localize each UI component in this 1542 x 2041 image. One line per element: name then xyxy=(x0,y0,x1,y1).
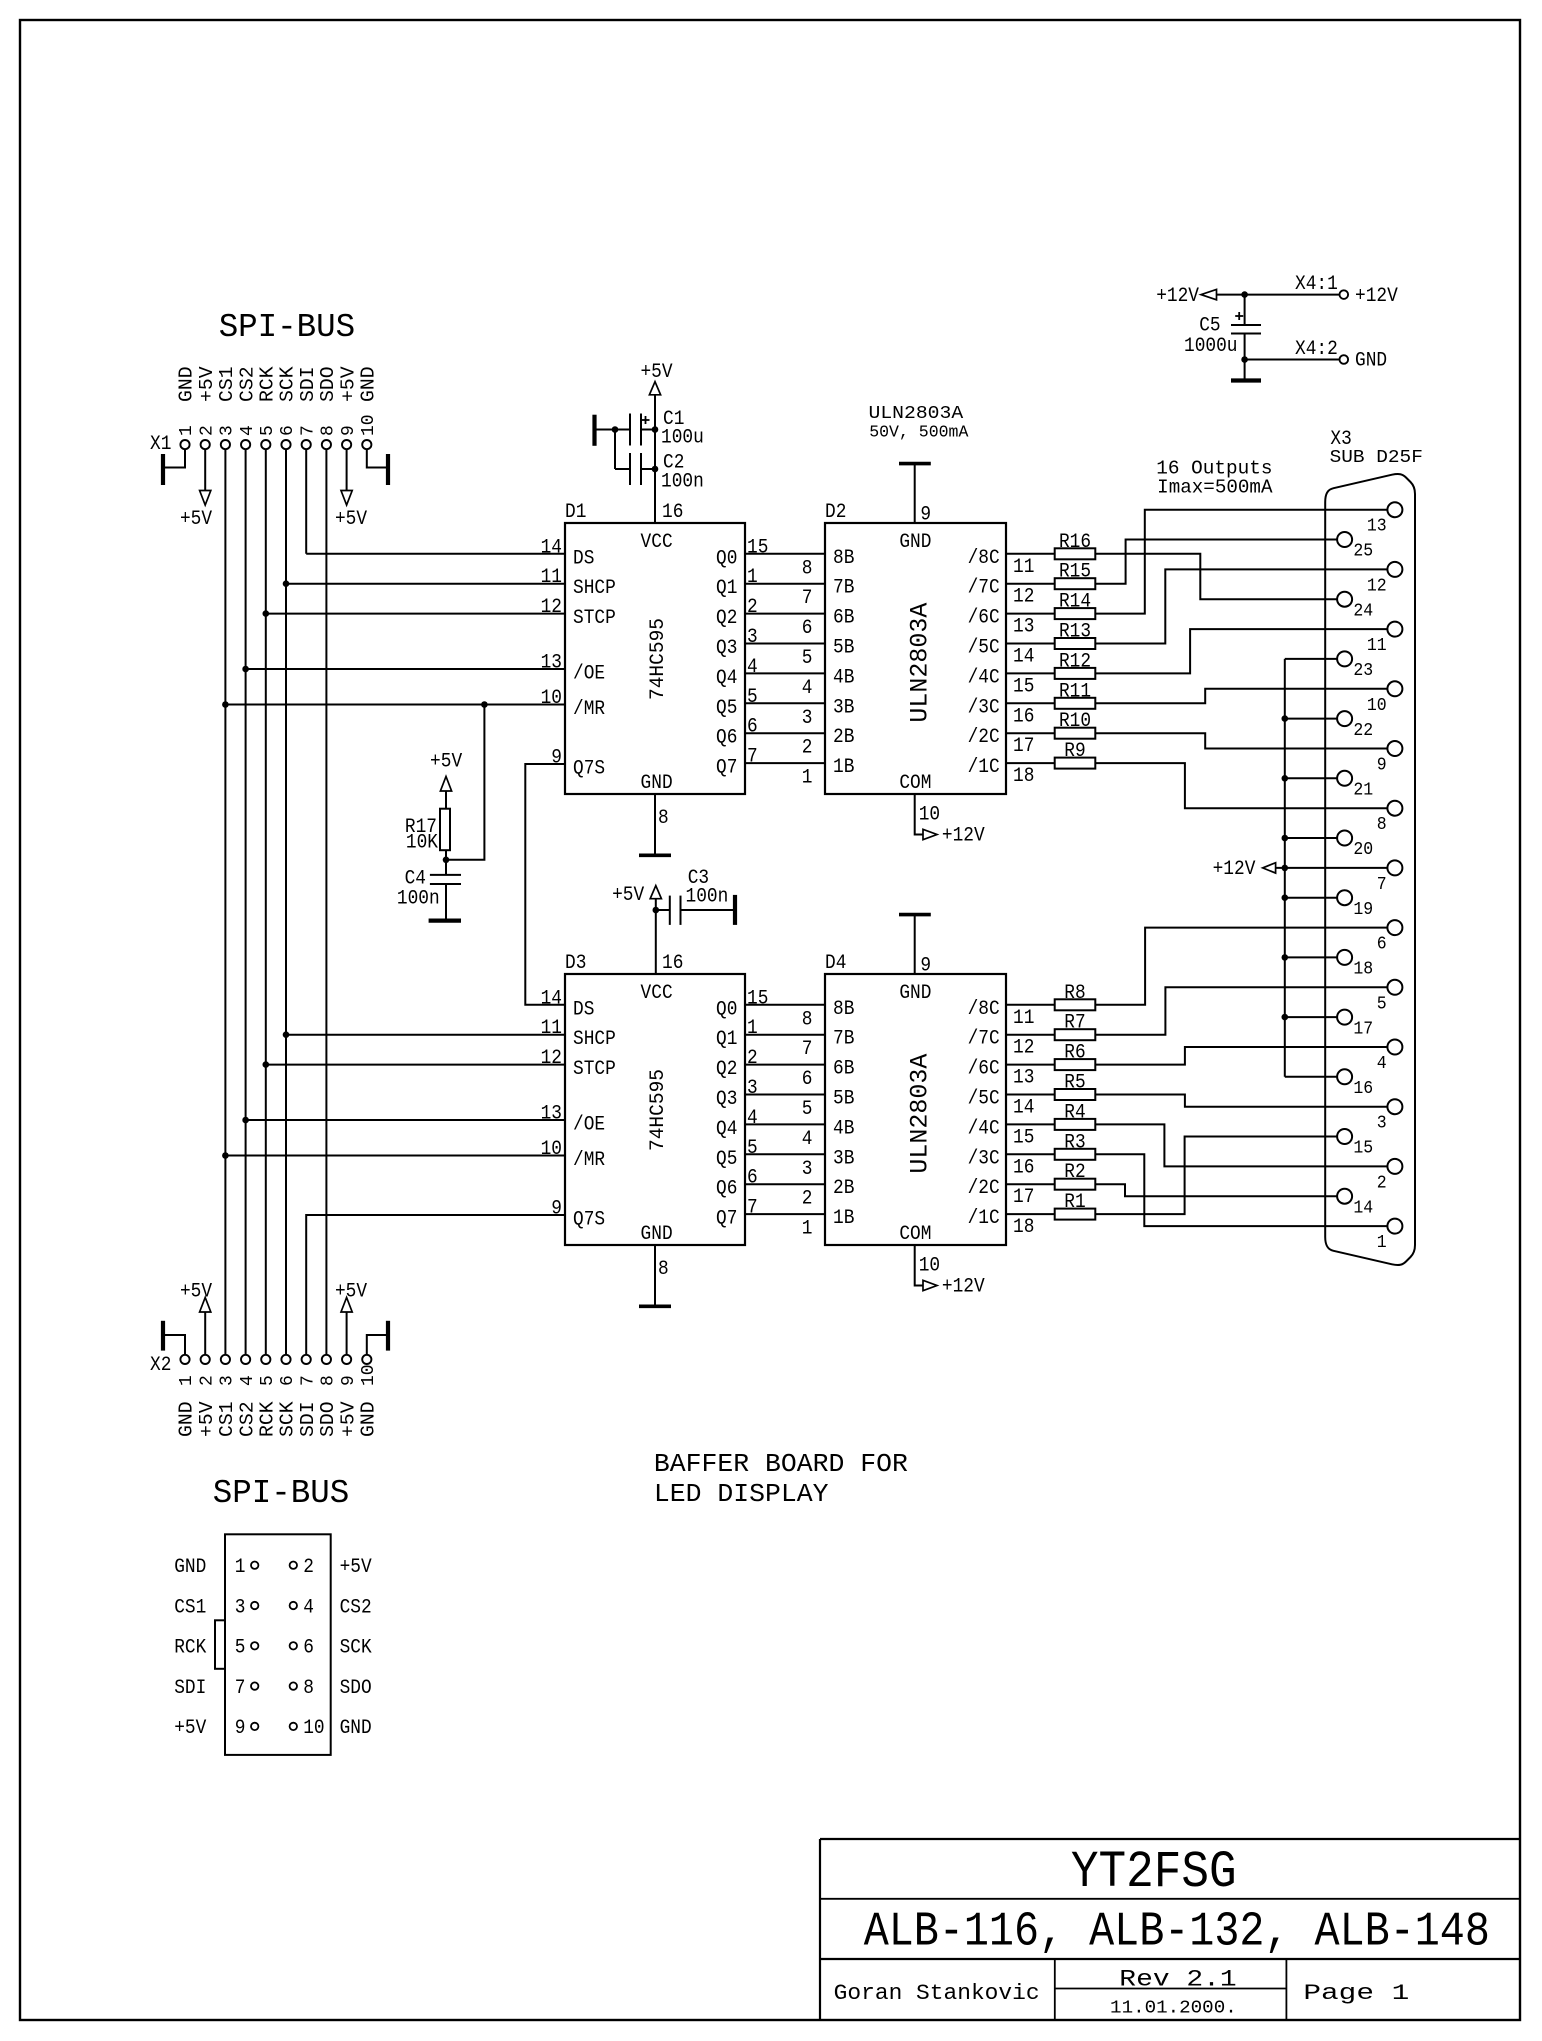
svg-text:VCC: VCC xyxy=(641,531,673,554)
svg-text:+12V: +12V xyxy=(942,1276,985,1299)
svg-text:GND: GND xyxy=(899,982,931,1005)
svg-text:13: 13 xyxy=(1013,616,1034,639)
svg-text:1: 1 xyxy=(177,1375,197,1386)
svg-text:2: 2 xyxy=(197,1375,217,1386)
svg-text:+5V: +5V xyxy=(430,751,462,774)
svg-text:11: 11 xyxy=(1013,556,1034,579)
svg-text:YT2FSG: YT2FSG xyxy=(1071,1843,1237,1902)
svg-text:Q2: Q2 xyxy=(716,1058,737,1081)
svg-text:CS2: CS2 xyxy=(236,1401,258,1437)
svg-text:8B: 8B xyxy=(833,547,854,570)
svg-text:6: 6 xyxy=(278,425,298,436)
svg-text:100n: 100n xyxy=(686,885,729,908)
svg-text:13: 13 xyxy=(1013,1067,1034,1090)
svg-text:14: 14 xyxy=(541,987,562,1010)
svg-text:17: 17 xyxy=(1013,1186,1034,1209)
svg-text:+12V: +12V xyxy=(1213,858,1256,881)
svg-text:6: 6 xyxy=(802,1068,813,1091)
svg-text:13: 13 xyxy=(1367,516,1387,537)
svg-text:8: 8 xyxy=(802,557,813,580)
svg-text:SDO: SDO xyxy=(317,366,339,402)
svg-text:17: 17 xyxy=(1013,735,1034,758)
svg-text:100n: 100n xyxy=(661,470,704,493)
svg-text:R1: R1 xyxy=(1064,1191,1085,1214)
svg-text:COM: COM xyxy=(899,772,931,795)
svg-text:Rev 2.1: Rev 2.1 xyxy=(1119,1967,1236,1993)
svg-text:+5V: +5V xyxy=(180,508,212,531)
svg-text:+5V: +5V xyxy=(340,1556,372,1579)
svg-text:R8: R8 xyxy=(1064,982,1085,1005)
svg-text:D1: D1 xyxy=(565,501,586,524)
svg-text:Imax=500mA: Imax=500mA xyxy=(1157,477,1273,499)
svg-text:18: 18 xyxy=(1013,1216,1034,1239)
svg-text:SDI: SDI xyxy=(297,1401,319,1437)
svg-text:5: 5 xyxy=(235,1637,246,1660)
svg-text:/8C: /8C xyxy=(968,547,1000,570)
svg-text:5: 5 xyxy=(258,425,278,436)
svg-text:R15: R15 xyxy=(1059,561,1091,584)
svg-text:8: 8 xyxy=(319,1375,339,1386)
svg-text:5B: 5B xyxy=(833,637,854,660)
svg-text:Q3: Q3 xyxy=(716,1088,737,1111)
svg-text:10: 10 xyxy=(919,803,940,826)
svg-text:2: 2 xyxy=(197,425,217,436)
svg-text:COM: COM xyxy=(899,1223,931,1246)
svg-text:+5V: +5V xyxy=(180,1281,212,1304)
svg-text:9: 9 xyxy=(551,747,562,770)
svg-text:1: 1 xyxy=(1377,1232,1387,1253)
svg-text:5: 5 xyxy=(802,647,813,670)
svg-text:7: 7 xyxy=(802,587,813,610)
svg-text:5: 5 xyxy=(258,1375,278,1386)
svg-text:/MR: /MR xyxy=(573,1149,605,1172)
svg-text:3: 3 xyxy=(1377,1113,1387,1134)
svg-text:9: 9 xyxy=(1377,755,1387,776)
svg-text:15: 15 xyxy=(747,987,768,1010)
svg-text:7: 7 xyxy=(747,1197,758,1220)
svg-text:+12V: +12V xyxy=(942,825,985,848)
svg-text:SUB D25F: SUB D25F xyxy=(1330,447,1423,468)
svg-text:12: 12 xyxy=(1013,1037,1034,1060)
svg-text:2: 2 xyxy=(802,1188,813,1211)
svg-text:+5V: +5V xyxy=(337,1401,359,1437)
svg-text:/2C: /2C xyxy=(968,1177,1000,1200)
svg-text:+12V: +12V xyxy=(1156,285,1199,308)
svg-text:1: 1 xyxy=(747,1017,758,1040)
svg-text:16: 16 xyxy=(1013,1156,1034,1179)
svg-text:2: 2 xyxy=(802,737,813,760)
svg-text:10: 10 xyxy=(359,414,379,436)
svg-text:R6: R6 xyxy=(1064,1042,1085,1065)
svg-text:7: 7 xyxy=(298,425,318,436)
svg-text:6B: 6B xyxy=(833,607,854,630)
svg-text:DS: DS xyxy=(573,547,594,570)
svg-text:16: 16 xyxy=(662,952,683,975)
svg-text:R5: R5 xyxy=(1064,1072,1085,1095)
svg-text:/6C: /6C xyxy=(968,607,1000,630)
svg-text:3: 3 xyxy=(802,707,813,730)
svg-text:16: 16 xyxy=(1353,1078,1373,1099)
svg-text:11: 11 xyxy=(541,566,562,589)
svg-text:11: 11 xyxy=(1367,635,1387,656)
svg-text:7: 7 xyxy=(235,1677,246,1700)
svg-text:18: 18 xyxy=(1013,765,1034,788)
svg-text:GND: GND xyxy=(641,1223,673,1246)
svg-text:8: 8 xyxy=(1377,814,1387,835)
svg-text:1: 1 xyxy=(235,1556,246,1579)
svg-text:SDI: SDI xyxy=(297,366,319,402)
svg-text:8: 8 xyxy=(802,1008,813,1031)
svg-text:100n: 100n xyxy=(397,887,440,910)
svg-text:11.01.2000.: 11.01.2000. xyxy=(1110,1999,1237,2019)
svg-text:15: 15 xyxy=(1353,1138,1373,1159)
svg-text:/5C: /5C xyxy=(968,1088,1000,1111)
svg-text:4: 4 xyxy=(238,425,258,436)
svg-text:25: 25 xyxy=(1353,541,1373,562)
svg-text:10: 10 xyxy=(919,1254,940,1277)
svg-text:4B: 4B xyxy=(833,666,854,689)
svg-text:Q7S: Q7S xyxy=(573,758,605,781)
svg-text:50V, 500mA: 50V, 500mA xyxy=(869,424,969,443)
svg-text:X1: X1 xyxy=(150,433,171,456)
svg-text:Q4: Q4 xyxy=(716,1118,737,1141)
svg-text:74HC595: 74HC595 xyxy=(647,618,670,700)
svg-text:8: 8 xyxy=(303,1677,314,1700)
svg-text:6B: 6B xyxy=(833,1058,854,1081)
svg-text:+12V: +12V xyxy=(1355,285,1398,308)
svg-text:6: 6 xyxy=(802,617,813,640)
svg-text:19: 19 xyxy=(1353,899,1373,920)
svg-text:5B: 5B xyxy=(833,1088,854,1111)
svg-text:12: 12 xyxy=(1013,586,1034,609)
svg-text:+5V: +5V xyxy=(337,366,359,402)
svg-text:12: 12 xyxy=(541,1047,562,1070)
svg-text:RCK: RCK xyxy=(174,1637,206,1660)
svg-text:8: 8 xyxy=(319,425,339,436)
svg-text:GND: GND xyxy=(340,1717,372,1740)
svg-text:X4:1: X4:1 xyxy=(1295,273,1338,296)
svg-text:6: 6 xyxy=(747,1167,758,1190)
svg-text:1: 1 xyxy=(802,767,813,790)
svg-text:Q5: Q5 xyxy=(716,1148,737,1171)
svg-text:R7: R7 xyxy=(1064,1012,1085,1035)
svg-text:6: 6 xyxy=(278,1375,298,1386)
svg-text:3: 3 xyxy=(218,425,238,436)
svg-text:21: 21 xyxy=(1353,780,1373,801)
svg-text:/OE: /OE xyxy=(573,1114,605,1137)
svg-text:9: 9 xyxy=(920,504,931,527)
svg-text:7: 7 xyxy=(802,1038,813,1061)
svg-text:GND: GND xyxy=(641,772,673,795)
svg-text:R3: R3 xyxy=(1064,1131,1085,1154)
svg-text:/2C: /2C xyxy=(968,726,1000,749)
svg-text:VCC: VCC xyxy=(641,982,673,1005)
svg-text:3: 3 xyxy=(747,626,758,649)
svg-text:SHCP: SHCP xyxy=(573,1028,616,1051)
svg-text:Q4: Q4 xyxy=(716,667,737,690)
svg-text:16: 16 xyxy=(662,501,683,524)
svg-text:D4: D4 xyxy=(825,952,846,975)
svg-text:20: 20 xyxy=(1353,839,1373,860)
svg-text:/4C: /4C xyxy=(968,1117,1000,1140)
svg-text:8: 8 xyxy=(658,807,669,830)
svg-text:9: 9 xyxy=(235,1717,246,1740)
svg-text:R14: R14 xyxy=(1059,591,1091,614)
svg-text:2B: 2B xyxy=(833,726,854,749)
svg-text:SCK: SCK xyxy=(277,1401,299,1437)
svg-text:24: 24 xyxy=(1353,600,1373,621)
svg-text:R9: R9 xyxy=(1064,740,1085,763)
svg-text:Q7: Q7 xyxy=(716,1208,737,1231)
svg-text:/7C: /7C xyxy=(968,577,1000,600)
svg-text:18: 18 xyxy=(1353,959,1373,980)
svg-text:+5V: +5V xyxy=(335,1281,367,1304)
svg-text:ULN2803A: ULN2803A xyxy=(906,1054,935,1174)
svg-text:Page 1: Page 1 xyxy=(1303,1981,1409,2006)
svg-text:2: 2 xyxy=(1377,1172,1387,1193)
svg-text:GND: GND xyxy=(176,366,198,402)
svg-text:4: 4 xyxy=(747,1107,758,1130)
svg-text:10: 10 xyxy=(359,1364,379,1386)
svg-text:X2: X2 xyxy=(150,1354,171,1377)
svg-text:RCK: RCK xyxy=(257,366,279,402)
svg-text:/1C: /1C xyxy=(968,756,1000,779)
svg-text:2: 2 xyxy=(747,596,758,619)
svg-text:8: 8 xyxy=(658,1258,669,1281)
svg-text:1: 1 xyxy=(747,566,758,589)
svg-text:ALB-116, ALB-132, ALB-148: ALB-116, ALB-132, ALB-148 xyxy=(864,1906,1490,1960)
svg-text:R12: R12 xyxy=(1059,650,1091,673)
svg-text:6: 6 xyxy=(1377,934,1387,955)
svg-text:4: 4 xyxy=(802,1128,813,1151)
svg-text:+5V: +5V xyxy=(196,1401,218,1437)
svg-text:3: 3 xyxy=(235,1596,246,1619)
svg-text:5: 5 xyxy=(747,1137,758,1160)
svg-text:14: 14 xyxy=(1013,1097,1034,1120)
svg-text:R4: R4 xyxy=(1064,1101,1085,1124)
svg-text:SPI-BUS: SPI-BUS xyxy=(213,1475,349,1512)
svg-text:/8C: /8C xyxy=(968,998,1000,1021)
svg-text:/7C: /7C xyxy=(968,1028,1000,1051)
svg-text:STCP: STCP xyxy=(573,1058,616,1081)
svg-text:7B: 7B xyxy=(833,1028,854,1051)
svg-text:3B: 3B xyxy=(833,696,854,719)
svg-text:7B: 7B xyxy=(833,577,854,600)
svg-text:/3C: /3C xyxy=(968,696,1000,719)
svg-text:/MR: /MR xyxy=(573,698,605,721)
svg-text:1B: 1B xyxy=(833,756,854,779)
svg-text:Goran Stankovic: Goran Stankovic xyxy=(834,1981,1040,2006)
svg-text:/4C: /4C xyxy=(968,666,1000,689)
svg-text:CS1: CS1 xyxy=(174,1596,206,1619)
svg-text:SDO: SDO xyxy=(340,1677,372,1700)
svg-text:SPI-BUS: SPI-BUS xyxy=(219,309,356,346)
svg-text:Q0: Q0 xyxy=(716,547,737,570)
svg-text:3: 3 xyxy=(747,1077,758,1100)
svg-text:/5C: /5C xyxy=(968,637,1000,660)
svg-text:6: 6 xyxy=(303,1637,314,1660)
svg-text:+5V: +5V xyxy=(335,508,367,531)
svg-text:7: 7 xyxy=(298,1375,318,1386)
svg-text:10K: 10K xyxy=(406,832,438,855)
svg-text:11: 11 xyxy=(541,1017,562,1040)
svg-text:1B: 1B xyxy=(833,1207,854,1230)
svg-text:4: 4 xyxy=(303,1596,314,1619)
svg-text:17: 17 xyxy=(1353,1018,1373,1039)
svg-text:ULN2803A: ULN2803A xyxy=(906,603,935,723)
svg-text:+5V: +5V xyxy=(196,366,218,402)
svg-text:10: 10 xyxy=(541,1138,562,1161)
svg-text:74HC595: 74HC595 xyxy=(647,1069,670,1151)
svg-text:R10: R10 xyxy=(1059,710,1091,733)
svg-text:7: 7 xyxy=(747,746,758,769)
svg-text:13: 13 xyxy=(541,652,562,675)
svg-text:1000u: 1000u xyxy=(1184,335,1238,358)
svg-text:GND: GND xyxy=(358,366,380,402)
svg-text:4: 4 xyxy=(1377,1053,1387,1074)
svg-text:22: 22 xyxy=(1353,720,1373,741)
svg-text:CS1: CS1 xyxy=(216,1401,238,1437)
svg-text:2: 2 xyxy=(747,1047,758,1070)
svg-text:CS2: CS2 xyxy=(340,1596,372,1619)
svg-text:SDO: SDO xyxy=(317,1401,339,1437)
svg-text:10: 10 xyxy=(1367,695,1387,716)
svg-text:15: 15 xyxy=(747,536,768,559)
svg-text:C5: C5 xyxy=(1199,314,1220,337)
svg-text:Q6: Q6 xyxy=(716,727,737,750)
svg-text:SCK: SCK xyxy=(277,366,299,402)
svg-text:12: 12 xyxy=(1367,575,1387,596)
svg-text:4: 4 xyxy=(802,677,813,700)
svg-text:9: 9 xyxy=(339,1375,359,1386)
svg-text:3: 3 xyxy=(802,1158,813,1181)
svg-text:3B: 3B xyxy=(833,1147,854,1170)
svg-text:10: 10 xyxy=(541,687,562,710)
svg-text:11: 11 xyxy=(1013,1007,1034,1030)
svg-text:15: 15 xyxy=(1013,675,1034,698)
svg-text:RCK: RCK xyxy=(257,1401,279,1437)
svg-text:Q6: Q6 xyxy=(716,1178,737,1201)
svg-text:GND: GND xyxy=(1355,350,1387,373)
svg-text:4: 4 xyxy=(238,1375,258,1386)
svg-text:DS: DS xyxy=(573,998,594,1021)
svg-text:12: 12 xyxy=(541,596,562,619)
svg-text:15: 15 xyxy=(1013,1126,1034,1149)
svg-text:LED DISPLAY: LED DISPLAY xyxy=(654,1479,829,1509)
svg-text:/1C: /1C xyxy=(968,1207,1000,1230)
svg-text:16: 16 xyxy=(1013,705,1034,728)
svg-text:9: 9 xyxy=(551,1198,562,1221)
svg-text:CS2: CS2 xyxy=(236,366,258,402)
svg-text:3: 3 xyxy=(218,1375,238,1386)
svg-text:4: 4 xyxy=(747,656,758,679)
svg-text:6: 6 xyxy=(747,716,758,739)
svg-text:4B: 4B xyxy=(833,1117,854,1140)
svg-text:Q7: Q7 xyxy=(716,757,737,780)
svg-text:14: 14 xyxy=(1013,646,1034,669)
svg-text:D3: D3 xyxy=(565,952,586,975)
svg-text:STCP: STCP xyxy=(573,607,616,630)
svg-text:SCK: SCK xyxy=(340,1637,372,1660)
svg-text:R11: R11 xyxy=(1059,680,1091,703)
svg-text:GND: GND xyxy=(358,1401,380,1437)
svg-text:Q1: Q1 xyxy=(716,1028,737,1051)
svg-text:Q0: Q0 xyxy=(716,998,737,1021)
svg-text:Q5: Q5 xyxy=(716,697,737,720)
svg-text:Q3: Q3 xyxy=(716,637,737,660)
svg-text:R16: R16 xyxy=(1059,531,1091,554)
svg-text:ULN2803A: ULN2803A xyxy=(869,403,965,424)
svg-text:+5V: +5V xyxy=(174,1717,206,1740)
svg-text:2B: 2B xyxy=(833,1177,854,1200)
svg-text:R13: R13 xyxy=(1059,621,1091,644)
svg-text:1: 1 xyxy=(177,425,197,436)
svg-text:2: 2 xyxy=(303,1556,314,1579)
svg-text:+5V: +5V xyxy=(640,361,672,384)
svg-text:1: 1 xyxy=(802,1218,813,1241)
svg-text:Q7S: Q7S xyxy=(573,1209,605,1232)
svg-text:Q2: Q2 xyxy=(716,607,737,630)
svg-text:5: 5 xyxy=(747,686,758,709)
svg-text:GND: GND xyxy=(899,531,931,554)
svg-text:9: 9 xyxy=(339,425,359,436)
svg-text:SHCP: SHCP xyxy=(573,577,616,600)
svg-text:GND: GND xyxy=(176,1401,198,1437)
svg-text:BAFFER BOARD FOR: BAFFER BOARD FOR xyxy=(654,1449,908,1479)
svg-text:8B: 8B xyxy=(833,998,854,1021)
svg-text:9: 9 xyxy=(920,955,931,978)
svg-text:7: 7 xyxy=(1377,874,1387,895)
svg-text:14: 14 xyxy=(541,536,562,559)
svg-text:5: 5 xyxy=(1377,993,1387,1014)
svg-text:/3C: /3C xyxy=(968,1147,1000,1170)
svg-text:X4:2: X4:2 xyxy=(1295,338,1338,361)
svg-text:D2: D2 xyxy=(825,501,846,524)
svg-text:SDI: SDI xyxy=(174,1677,206,1700)
svg-text:GND: GND xyxy=(174,1556,206,1579)
svg-text:10: 10 xyxy=(303,1717,324,1740)
svg-text:R2: R2 xyxy=(1064,1161,1085,1184)
svg-text:/6C: /6C xyxy=(968,1058,1000,1081)
svg-text:Q1: Q1 xyxy=(716,577,737,600)
svg-text:+5V: +5V xyxy=(612,884,644,907)
svg-text:/OE: /OE xyxy=(573,663,605,686)
svg-text:13: 13 xyxy=(541,1103,562,1126)
svg-text:5: 5 xyxy=(802,1098,813,1121)
svg-text:23: 23 xyxy=(1353,660,1373,681)
svg-text:14: 14 xyxy=(1353,1197,1373,1218)
svg-text:100u: 100u xyxy=(661,427,704,450)
svg-text:CS1: CS1 xyxy=(216,366,238,402)
